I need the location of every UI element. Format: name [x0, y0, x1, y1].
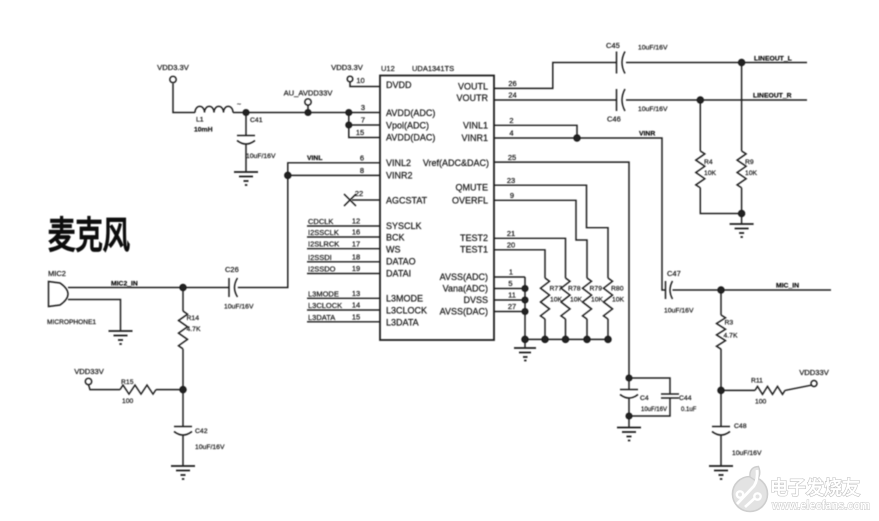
svg-text:www.elecfans.com: www.elecfans.com — [771, 499, 870, 513]
node R78 bus — [563, 336, 569, 342]
svg-text:VINR: VINR — [639, 131, 655, 138]
capacitor C45 — [617, 52, 626, 74]
wire R4 tap from LINEOUT_R — [699, 100, 701, 151]
resistor R79 — [583, 278, 592, 319]
svg-text:4.7K: 4.7K — [724, 333, 738, 340]
svg-text:16: 16 — [352, 228, 360, 237]
svg-text:R4: R4 — [704, 159, 713, 166]
node AVDD rail at AU_AVDD33V — [305, 110, 311, 116]
wire R4 bottom — [700, 188, 741, 214]
wire AVSS pin 5 — [494, 288, 525, 290]
svg-text:C42: C42 — [195, 428, 208, 435]
svg-text:QMUTE: QMUTE — [456, 183, 489, 193]
svg-text:C44: C44 — [679, 395, 692, 402]
node AVDD bus pin7 — [346, 122, 352, 128]
resistor R3 — [717, 315, 726, 349]
svg-text:Vana(ADC): Vana(ADC) — [443, 284, 488, 294]
svg-text:L1: L1 — [196, 117, 204, 124]
wire C45 to LINEOUT_L — [626, 62, 807, 64]
wire AVSS pin 11 — [494, 299, 525, 301]
svg-text:L3MODE: L3MODE — [386, 294, 423, 304]
watermark elecfans logo — [733, 467, 768, 512]
resistor R78 — [561, 278, 570, 319]
svg-text:I2SSDI: I2SSDI — [308, 253, 332, 262]
svg-text:5: 5 — [508, 279, 512, 288]
power circle VDD33V bottom right — [811, 381, 817, 387]
svg-text:LINEOUT_L: LINEOUT_L — [754, 56, 792, 63]
svg-text:VINR1: VINR1 — [461, 133, 488, 143]
ground below microphone — [109, 331, 133, 344]
svg-text:10K: 10K — [745, 170, 758, 177]
svg-text:R14: R14 — [187, 315, 200, 322]
svg-text:L3CLOCK: L3CLOCK — [308, 301, 342, 310]
svg-text:4: 4 — [509, 129, 513, 138]
wire mic lower terminal to ground — [73, 300, 121, 332]
node C47 R3 junction — [718, 287, 724, 293]
svg-text:20: 20 — [507, 241, 515, 250]
wire C41 tap from rail — [245, 113, 247, 136]
svg-text:R9: R9 — [745, 159, 754, 166]
wire VDD3.3V top to pin 10 — [350, 82, 380, 87]
resistor R80 — [604, 278, 613, 319]
resistor R77 — [541, 278, 550, 319]
svg-text:4.7K: 4.7K — [187, 326, 201, 333]
svg-text:C47: C47 — [667, 269, 681, 278]
svg-text:7: 7 — [361, 116, 365, 125]
capacitor C46 — [617, 89, 626, 111]
svg-text:10mH: 10mH — [194, 127, 213, 134]
svg-text:13: 13 — [352, 289, 360, 298]
ground below AVSS bus — [514, 348, 536, 361]
svg-text:DATAO: DATAO — [386, 257, 416, 267]
svg-text:18: 18 — [352, 253, 360, 262]
wire net I2SSCLK stub — [307, 236, 380, 238]
svg-text:10K: 10K — [570, 297, 583, 304]
node AVDD bus pin3 — [346, 110, 352, 116]
svg-text:3: 3 — [361, 103, 365, 112]
svg-text:10uF/16V: 10uF/16V — [246, 153, 276, 160]
wire node to C48 — [720, 390, 722, 426]
svg-text:10uF/16V: 10uF/16V — [664, 308, 694, 315]
node mic R14 junction — [180, 285, 186, 291]
wire R9 tap from LINEOUT_L — [741, 63, 743, 152]
power circle VDD3.3V left — [170, 76, 176, 82]
svg-text:23: 23 — [507, 176, 515, 185]
svg-text:BCK: BCK — [386, 233, 405, 243]
svg-text:MIC2: MIC2 — [48, 269, 66, 278]
wire pin 20 TEST1 to R77 — [494, 250, 545, 278]
svg-text:2: 2 — [509, 116, 513, 125]
svg-text:Vref(ADC&DAC): Vref(ADC&DAC) — [423, 158, 489, 168]
wire C44 bottom into C4 stem — [629, 398, 670, 416]
power circle VDD3.3V top — [347, 76, 353, 82]
svg-text:麦克风: 麦克风 — [48, 215, 130, 256]
wire AVSS bus vertical — [524, 277, 526, 348]
svg-text:10uF/16V: 10uF/16V — [224, 304, 254, 311]
svg-text:1: 1 — [509, 268, 513, 277]
svg-text:VINL1: VINL1 — [463, 121, 488, 131]
wire pin 21 TEST2 to R78 — [494, 238, 566, 278]
wire pin 26 VOUTL to C45 — [494, 63, 616, 89]
svg-text:VINR2: VINR2 — [386, 171, 413, 181]
svg-text:10uF/16V: 10uF/16V — [638, 45, 668, 52]
svg-text:I2SSCLK: I2SSCLK — [308, 228, 339, 237]
svg-text:22: 22 — [355, 189, 363, 198]
svg-text:AVSS(ADC): AVSS(ADC) — [440, 272, 488, 282]
wire VINL2 pin 6 — [288, 163, 380, 176]
wire node to C42 — [182, 390, 184, 427]
svg-text:I2SSDO: I2SSDO — [308, 265, 336, 274]
ground below C48 — [709, 466, 733, 479]
svg-text:OVERFL: OVERFL — [452, 196, 488, 206]
svg-text:UDA1341TS: UDA1341TS — [412, 64, 454, 73]
wire R3 top — [720, 290, 722, 315]
svg-text:10uF/16V: 10uF/16V — [638, 106, 668, 113]
svg-text:U12: U12 — [381, 64, 395, 73]
svg-text:14: 14 — [352, 301, 360, 310]
wire net I2SSDO stub — [307, 273, 380, 275]
svg-text:R78: R78 — [568, 286, 581, 293]
svg-text:10uF/16V: 10uF/16V — [732, 450, 762, 457]
svg-text:SYSCLK: SYSCLK — [386, 221, 422, 231]
node R79 bus — [584, 336, 590, 342]
svg-text:MICROPHONE1: MICROPHONE1 — [47, 319, 96, 326]
wire R9 bottom to ground stem — [741, 188, 743, 224]
wire R77 bottom — [544, 319, 546, 339]
wire AVSS pin 1 — [494, 276, 525, 278]
svg-text:C41: C41 — [250, 117, 263, 124]
svg-text:10uF/16V: 10uF/16V — [195, 444, 225, 451]
svg-text:C48: C48 — [734, 423, 747, 430]
wire net I2SLRCK stub — [307, 248, 380, 250]
wire R78 bottom — [565, 319, 567, 339]
svg-text:15: 15 — [352, 313, 360, 322]
wire pin 9 OVERFL to R79 — [494, 200, 587, 278]
svg-text:12: 12 — [352, 217, 360, 226]
wire net CDCLK stub — [307, 225, 380, 227]
svg-text:C45: C45 — [606, 41, 620, 50]
svg-text:10K: 10K — [704, 170, 717, 177]
svg-text:VOUTL: VOUTL — [458, 82, 488, 92]
node AVSS pin27 — [522, 309, 528, 315]
wire VINR2 pin 8 — [288, 174, 380, 176]
node C4 C44 junction — [626, 375, 632, 381]
node AVSS bus bottom — [522, 336, 528, 342]
svg-text:6: 6 — [360, 153, 364, 162]
wire C46 to LINEOUT_R — [626, 99, 807, 101]
wire pin 2 VINL1 down to VINR node — [494, 125, 577, 138]
svg-text:8: 8 — [360, 166, 364, 175]
svg-text:VINL2: VINL2 — [386, 158, 411, 168]
svg-text:I2SLRCK: I2SLRCK — [308, 240, 339, 249]
svg-text:MIC2_IN: MIC2_IN — [111, 281, 138, 288]
svg-text:24: 24 — [508, 91, 516, 100]
svg-text:Vpol(ADC): Vpol(ADC) — [386, 121, 429, 131]
power circle VDD33V bottom left — [85, 378, 91, 384]
wire R14 bottom to node — [182, 349, 184, 390]
wire R14 top — [182, 288, 184, 312]
wire AVSS pin 27 — [494, 311, 525, 313]
no-connect X on AGCSTAT pin 22 — [344, 194, 356, 206]
wire R15 to node — [156, 389, 183, 391]
svg-text:L3DATA: L3DATA — [386, 318, 419, 328]
node R9 tap — [739, 60, 745, 66]
capacitor C42 — [174, 427, 192, 467]
capacitor C41 — [237, 136, 255, 173]
svg-text:25: 25 — [508, 153, 516, 162]
wire pin 23 QMUTE to R80 — [494, 185, 608, 278]
wire net L3CLOCK stub — [307, 309, 380, 311]
svg-text:DVDD: DVDD — [386, 80, 412, 90]
wire inductor L1 output to AVDD rail into pin 3 — [233, 112, 380, 114]
capacitor C4 — [620, 390, 638, 428]
svg-text:9: 9 — [510, 191, 514, 200]
wire AU_AVDD33V stem — [307, 106, 309, 113]
svg-text:VDD3.3V: VDD3.3V — [157, 63, 190, 72]
svg-text:R15: R15 — [121, 379, 134, 386]
node R77 bus — [542, 336, 548, 342]
wire pin 4 VINR1 net VINR — [494, 138, 665, 290]
svg-text:0.1uF: 0.1uF — [681, 407, 697, 413]
svg-text:10uF/16V: 10uF/16V — [641, 407, 667, 413]
svg-text:AVDD(ADC): AVDD(ADC) — [386, 108, 435, 118]
ground below R4 R9 — [730, 224, 754, 237]
svg-text:AVDD(DAC): AVDD(DAC) — [386, 133, 435, 143]
svg-text:C26: C26 — [225, 265, 239, 274]
wire R80 bottom — [607, 319, 609, 339]
svg-text:AVSS(DAC): AVSS(DAC) — [440, 307, 488, 317]
power circle AU_AVDD33V — [305, 99, 311, 105]
node R4 tap — [697, 97, 703, 103]
capacitor C48 — [712, 427, 730, 467]
svg-text:LINEOUT_R: LINEOUT_R — [753, 93, 792, 100]
resistor R11 — [755, 386, 785, 394]
svg-text:VDD33V: VDD33V — [74, 367, 104, 376]
svg-text:21: 21 — [507, 229, 515, 238]
wire AVDD bus drop to pin 15 — [349, 125, 380, 138]
svg-text:TEST1: TEST1 — [460, 245, 488, 255]
svg-text:DVSS: DVSS — [463, 295, 488, 305]
svg-text:R11: R11 — [751, 378, 763, 385]
capacitor C47 — [666, 281, 673, 299]
svg-text:15: 15 — [356, 128, 364, 137]
svg-text:19: 19 — [352, 264, 360, 273]
svg-text:10K: 10K — [612, 297, 625, 304]
svg-text:AU_AVDD33V: AU_AVDD33V — [284, 89, 334, 98]
svg-text:VINL: VINL — [307, 155, 322, 162]
svg-text:27: 27 — [508, 302, 516, 311]
svg-text:100: 100 — [755, 399, 767, 406]
svg-text:100: 100 — [122, 398, 134, 405]
wire bridge C4 to C44 — [629, 378, 670, 394]
svg-text:VDD3.3V: VDD3.3V — [331, 63, 364, 72]
ground below C42 — [171, 466, 195, 479]
node R4 R9 ground junction — [739, 211, 745, 217]
svg-text:R79: R79 — [590, 286, 603, 293]
svg-text:电子发烧友: 电子发烧友 — [770, 476, 860, 499]
wire net L3DATA stub — [307, 321, 380, 323]
node VINL1 VINR1 junction — [574, 135, 580, 141]
wire resistor ground bus — [525, 338, 608, 340]
svg-text:MIC_IN: MIC_IN — [776, 283, 799, 290]
svg-text:C4: C4 — [640, 395, 649, 402]
node R14 R15 C42 junction — [180, 387, 186, 393]
node AVDD rail at C41 — [243, 110, 249, 116]
ground below C4 C44 — [617, 428, 641, 441]
wire pin 24 VOUTR to C46 — [494, 99, 616, 101]
node C4 C44 bottom junction — [626, 413, 632, 419]
node VINR2 junction — [285, 172, 291, 178]
resistor R14 — [179, 311, 188, 349]
svg-text:C46: C46 — [607, 115, 621, 124]
svg-text:L3DATA: L3DATA — [308, 313, 335, 322]
svg-text:TEST2: TEST2 — [460, 233, 488, 243]
svg-text:CDCLK: CDCLK — [308, 217, 333, 226]
svg-text:10: 10 — [356, 76, 364, 85]
resistor R9 — [737, 151, 746, 188]
svg-text:WS: WS — [386, 245, 401, 255]
microphone MIC2 connector — [49, 282, 74, 307]
node R3 R11 C48 junction — [718, 387, 724, 393]
op-amp IC U12 UDA1341TS body — [380, 76, 494, 341]
wire R11 to VDD33V right — [785, 385, 811, 390]
resistor R15 — [120, 385, 156, 394]
wire R3 bottom to node — [720, 349, 722, 390]
wire R79 bottom — [586, 319, 588, 339]
wire net L3MODE stub — [307, 297, 380, 299]
wire AVDD bus drop to pin 7 — [349, 113, 380, 126]
wire C47 to MIC_IN — [673, 289, 832, 291]
resistor R4 — [696, 151, 705, 188]
svg-text:R80: R80 — [611, 286, 624, 293]
svg-text:DATAI: DATAI — [386, 269, 411, 279]
svg-text:L3MODE: L3MODE — [308, 289, 339, 298]
wire pin 25 Vref down to C4 — [494, 162, 629, 389]
node AVSS pin11 — [522, 297, 528, 303]
wire VDD3.3V left rail down to inductor — [173, 84, 195, 113]
inductor L1 — [195, 106, 233, 112]
node R80 bus — [605, 336, 611, 342]
svg-text:11: 11 — [508, 291, 516, 300]
wire VDD33V left to R15 — [89, 385, 121, 390]
node AVSS pin5 — [522, 286, 528, 292]
svg-text:26: 26 — [508, 79, 516, 88]
svg-text:~: ~ — [237, 101, 241, 108]
svg-text:10K: 10K — [550, 297, 563, 304]
svg-text:VDD33V: VDD33V — [799, 368, 829, 377]
ground below C41 — [234, 172, 258, 185]
wire MIC2_IN mic to C26 — [73, 287, 229, 289]
wire AGCSTAT pin 22 stub — [352, 199, 380, 201]
svg-text:17: 17 — [352, 239, 360, 248]
svg-text:L3CLOCK: L3CLOCK — [386, 306, 427, 316]
capacitor C26 — [229, 278, 238, 297]
svg-text:AGCSTAT: AGCSTAT — [386, 196, 428, 206]
wire net I2SSDI stub — [307, 261, 380, 263]
svg-text:VOUTR: VOUTR — [457, 93, 489, 103]
capacitor C44 — [661, 394, 679, 398]
wire mic riser from C26 to VINR2 node — [238, 175, 288, 287]
svg-text:10K: 10K — [591, 297, 604, 304]
svg-text:R77: R77 — [550, 286, 563, 293]
wire node to R11 — [721, 389, 755, 391]
svg-text:R3: R3 — [725, 320, 734, 327]
